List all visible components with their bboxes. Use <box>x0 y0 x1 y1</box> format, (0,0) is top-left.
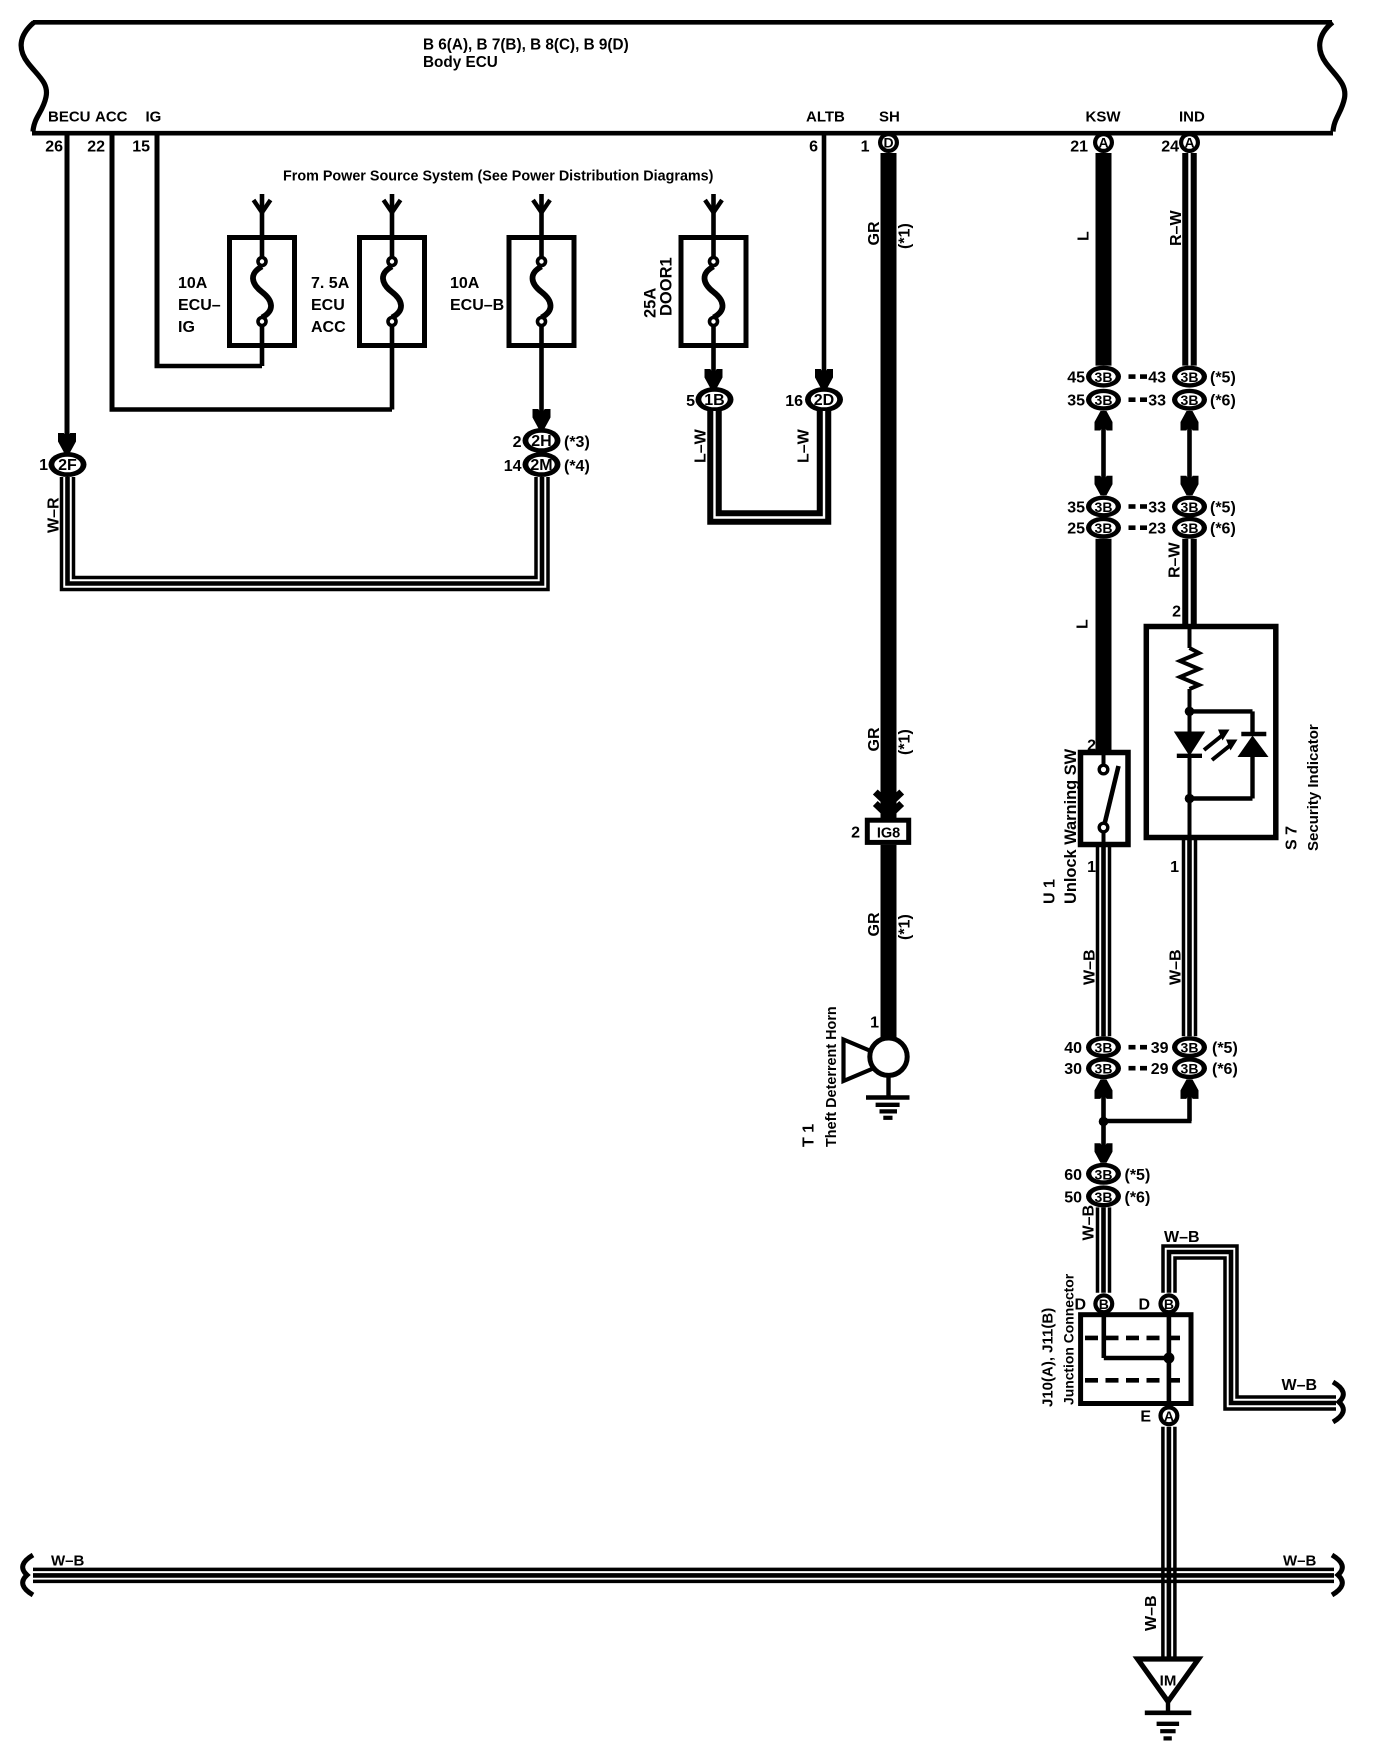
svg-text:50: 50 <box>1064 1189 1082 1206</box>
connector 1B <box>696 387 734 412</box>
svg-text:A: A <box>1184 135 1194 151</box>
fuse ECU-B element <box>539 240 544 258</box>
connector 3B (45) <box>1086 366 1121 388</box>
wire fuse DOOR1 to connector 1B <box>711 346 716 376</box>
svg-text:GR: GR <box>866 912 883 936</box>
ground IM triangle <box>1138 1659 1199 1702</box>
fuse DOOR1 box <box>681 238 746 346</box>
fuse ECU-ACC box <box>360 238 425 346</box>
wire R-W from 3B to security indicator <box>1182 539 1197 624</box>
connector 2H <box>523 428 561 453</box>
svg-text:ECU–B: ECU–B <box>450 297 504 314</box>
connector 2D <box>805 387 843 412</box>
svg-text:14: 14 <box>504 458 522 475</box>
svg-text:W–B: W–B <box>1168 949 1185 985</box>
svg-text:L–W: L–W <box>693 428 710 463</box>
junction connector IG8 <box>867 820 908 842</box>
connector 3B (39) <box>1172 1036 1207 1058</box>
svg-text:2: 2 <box>513 434 522 451</box>
svg-text:3B: 3B <box>1095 499 1113 515</box>
S7 internal wire bottom <box>1188 755 1192 837</box>
svg-text:W–B: W–B <box>1081 1205 1098 1241</box>
svg-text:T 1: T 1 <box>801 1124 818 1147</box>
connector 3B (60) <box>1086 1163 1121 1185</box>
svg-text:1B: 1B <box>704 392 724 409</box>
svg-text:DOOR1: DOOR1 <box>658 257 676 316</box>
dashes between 3B 40-39 <box>1129 1045 1136 1050</box>
wire L from 3B to unlock warning switch <box>1096 539 1112 753</box>
svg-text:2F: 2F <box>58 457 77 474</box>
svg-text:(*1): (*1) <box>897 223 914 249</box>
connector 3B (40) <box>1086 1036 1121 1058</box>
connector 3B (29) <box>1172 1057 1207 1079</box>
svg-text:R–W: R–W <box>1167 542 1184 578</box>
wire W-B from U1 to 3B <box>1096 845 1100 1036</box>
connector circle A at KSW <box>1093 132 1114 153</box>
svg-text:B: B <box>1099 1296 1109 1312</box>
connector 3B (30) <box>1086 1057 1121 1079</box>
svg-text:2M: 2M <box>530 457 552 474</box>
svg-text:W–B: W–B <box>51 1553 85 1570</box>
link arrow below 3B 30 <box>1095 1079 1113 1099</box>
svg-text:Unlock Warning SW: Unlock Warning SW <box>1062 748 1080 904</box>
svg-text:(*3): (*3) <box>564 434 590 451</box>
connector 3B (43) <box>1172 366 1207 388</box>
theft deterrent horn T1 <box>844 1040 874 1082</box>
connector 3B (23) <box>1172 517 1207 539</box>
svg-text:Body ECU: Body ECU <box>423 54 498 71</box>
resistor inside S7 <box>1180 648 1199 689</box>
svg-text:ACC: ACC <box>311 319 346 336</box>
svg-text:(*6): (*6) <box>1210 521 1236 538</box>
junction connector circle B left <box>1093 1293 1114 1314</box>
connector circle D at SH <box>878 132 899 153</box>
svg-text:3B: 3B <box>1095 1166 1113 1182</box>
svg-text:2H: 2H <box>531 433 551 450</box>
svg-text:15: 15 <box>132 139 150 156</box>
svg-text:KSW: KSW <box>1086 109 1122 126</box>
junction connector circle A <box>1158 1405 1179 1426</box>
LED in S7 <box>1174 732 1205 757</box>
ground IM symbol bars <box>1166 1702 1170 1712</box>
connector 3B (35 lower) <box>1086 496 1121 518</box>
svg-text:IG: IG <box>146 109 162 126</box>
svg-text:3B: 3B <box>1095 392 1113 408</box>
svg-text:IG: IG <box>178 319 195 336</box>
security indicator S7 box <box>1146 627 1276 838</box>
svg-text:Theft Deterrent Horn: Theft Deterrent Horn <box>824 1006 840 1147</box>
svg-text:43: 43 <box>1148 370 1166 387</box>
svg-text:35: 35 <box>1067 500 1085 517</box>
loop wire W-B from junction connector B <box>1163 1246 1336 1397</box>
svg-text:3B: 3B <box>1181 1061 1199 1077</box>
svg-text:35: 35 <box>1067 393 1085 410</box>
power feed arrow above fuse ECU-IG <box>260 194 265 236</box>
svg-text:BECU: BECU <box>48 109 91 126</box>
svg-text:3B: 3B <box>1181 392 1199 408</box>
svg-text:2: 2 <box>851 825 860 842</box>
svg-text:6: 6 <box>809 139 818 156</box>
svg-text:45: 45 <box>1067 370 1085 387</box>
svg-text:10A: 10A <box>450 275 480 292</box>
link arrow below 3B 29 <box>1181 1079 1199 1099</box>
svg-text:30: 30 <box>1064 1061 1082 1078</box>
svg-text:GR: GR <box>866 727 883 751</box>
svg-text:IND: IND <box>1179 109 1205 126</box>
wire fuse ECU-B to connector 2H <box>539 346 544 416</box>
svg-text:3B: 3B <box>1181 499 1199 515</box>
wire R-W from IND to 3B <box>1182 153 1197 366</box>
dashes between 3B 35-33 <box>1129 397 1136 402</box>
svg-text:L: L <box>1076 231 1093 241</box>
svg-text:3B: 3B <box>1095 1189 1113 1205</box>
svg-text:D: D <box>1138 1297 1150 1314</box>
branch wire to diode <box>1190 709 1253 713</box>
Body ECU connector band top edge <box>33 20 1332 25</box>
svg-text:23: 23 <box>1148 521 1166 538</box>
connector 2M <box>523 452 561 477</box>
wire W-B from junction connector A to ground <box>1161 1427 1165 1659</box>
junction connector internal dashed line lower <box>1085 1378 1187 1383</box>
svg-text:25: 25 <box>1067 521 1085 538</box>
Body ECU band bottom edge <box>32 131 1333 136</box>
link arrows IND between 3B pairs <box>1181 411 1199 431</box>
dashes between 3B 30-29 <box>1129 1066 1136 1071</box>
wire from junction to 3B 60 <box>1101 1121 1106 1152</box>
svg-text:3B: 3B <box>1181 1040 1199 1056</box>
horn ground <box>886 1076 890 1098</box>
svg-text:3B: 3B <box>1181 369 1199 385</box>
svg-text:1: 1 <box>39 457 48 474</box>
ground bus W-B left brace <box>23 1555 33 1595</box>
svg-text:10A: 10A <box>178 275 208 292</box>
svg-text:(*6): (*6) <box>1125 1189 1151 1206</box>
svg-text:40: 40 <box>1064 1040 1082 1057</box>
Body ECU band right wave edge <box>1320 22 1345 131</box>
fuse ECU-IG element <box>260 240 265 258</box>
dashes between 3B 25-23 <box>1129 525 1136 530</box>
svg-text:33: 33 <box>1148 500 1166 517</box>
svg-text:1: 1 <box>1087 859 1096 876</box>
fuse ECU-ACC element <box>390 240 395 258</box>
fuse DOOR1 element <box>711 240 716 258</box>
wire joining IND branch to KSW branch <box>1187 1092 1192 1122</box>
fuse ECU-IG box <box>230 238 295 346</box>
svg-text:(*1): (*1) <box>897 914 914 940</box>
unlock warning switch U1 box <box>1081 753 1129 845</box>
svg-text:W–B: W–B <box>1082 949 1099 985</box>
svg-text:SH: SH <box>879 109 900 126</box>
svg-text:A: A <box>1098 135 1108 151</box>
svg-text:2D: 2D <box>814 392 834 409</box>
svg-text:(*5): (*5) <box>1212 1040 1238 1057</box>
connector 3B (35) <box>1086 389 1121 411</box>
svg-text:(*1): (*1) <box>897 729 914 755</box>
svg-text:ALTB: ALTB <box>806 109 845 126</box>
svg-text:3B: 3B <box>1095 520 1113 536</box>
junction connector circle B right <box>1158 1293 1179 1314</box>
svg-text:R–W: R–W <box>1168 210 1185 246</box>
svg-text:7. 5A: 7. 5A <box>311 275 350 292</box>
wire GR from IG8 to horn <box>881 845 897 1038</box>
power feed arrow above fuse ECU-ACC <box>390 194 395 236</box>
svg-text:(*5): (*5) <box>1210 370 1236 387</box>
svg-text:E: E <box>1140 1409 1151 1426</box>
svg-text:B 6(A), B 7(B), B 8(C), B 9(D): B 6(A), B 7(B), B 8(C), B 9(D) <box>423 37 629 54</box>
connector 3B (33 lower) <box>1172 496 1207 518</box>
svg-text:(*6): (*6) <box>1212 1061 1238 1078</box>
svg-text:1: 1 <box>861 139 870 156</box>
wire L-W from 1B to 2D <box>715 411 825 518</box>
Body ECU band left wave edge <box>21 22 46 131</box>
svg-text:2: 2 <box>1172 604 1181 621</box>
svg-text:Security Indicator: Security Indicator <box>1305 724 1322 851</box>
junction connector internal node dot <box>1163 1353 1174 1364</box>
svg-text:60: 60 <box>1064 1167 1082 1184</box>
connector circle A at IND <box>1179 132 1200 153</box>
junction connector internal dashed line upper <box>1085 1336 1187 1341</box>
diode in S7 <box>1241 732 1266 736</box>
connector 2F <box>49 452 87 477</box>
svg-text:From Power Source System (See: From Power Source System (See Power Dist… <box>283 169 714 185</box>
svg-text:3B: 3B <box>1095 1061 1113 1077</box>
node branch dot lower in S7 <box>1185 794 1195 804</box>
svg-text:W–B: W–B <box>1282 1377 1318 1394</box>
wire ALTB pin 6 to connector 2D <box>822 133 827 375</box>
svg-text:IG8: IG8 <box>877 825 900 841</box>
svg-text:D: D <box>883 135 893 151</box>
node branch dot upper in S7 <box>1185 707 1195 717</box>
svg-text:24: 24 <box>1161 139 1179 156</box>
svg-text:29: 29 <box>1151 1061 1169 1078</box>
svg-text:B: B <box>1164 1296 1174 1312</box>
svg-text:26: 26 <box>45 139 63 156</box>
wire ACC pin 22 to fuse ECU-ACC <box>110 133 115 409</box>
ground bus W-B right brace <box>1332 1555 1342 1595</box>
svg-text:39: 39 <box>1151 1040 1169 1057</box>
svg-text:W–R: W–R <box>46 497 63 533</box>
svg-text:(*6): (*6) <box>1210 393 1236 410</box>
svg-text:21: 21 <box>1070 139 1088 156</box>
svg-text:22: 22 <box>87 139 105 156</box>
svg-text:(*5): (*5) <box>1210 500 1236 517</box>
power feed arrow above fuse ECU-B <box>539 194 544 236</box>
dashes between 3B 45-43 <box>1129 374 1136 379</box>
link arrows KSW between 3B pairs <box>1095 411 1113 431</box>
junction connector J10(A) J11(B) box <box>1081 1315 1191 1404</box>
svg-text:33: 33 <box>1148 393 1166 410</box>
svg-text:ECU–: ECU– <box>178 297 221 314</box>
svg-text:1: 1 <box>870 1015 879 1032</box>
svg-text:5: 5 <box>686 393 695 410</box>
ground bus W-B wire <box>33 1568 1334 1572</box>
junction connector internal bus wires <box>1102 1317 1107 1358</box>
wire GR from SH to junction IG8 <box>881 153 897 818</box>
svg-text:16: 16 <box>785 393 803 410</box>
svg-text:GR: GR <box>866 221 883 245</box>
svg-text:3B: 3B <box>1181 520 1199 536</box>
svg-text:IM: IM <box>1160 1673 1177 1690</box>
connector 3B (33) <box>1172 389 1207 411</box>
continuation brace of loop wire <box>1333 1382 1343 1422</box>
junction node dot <box>1099 1117 1109 1127</box>
svg-text:S 7: S 7 <box>1284 826 1301 850</box>
svg-text:J10(A), J11(B): J10(A), J11(B) <box>1040 1308 1057 1407</box>
LED emission arrows <box>1204 736 1222 751</box>
wire BECU pin 26 to connector 2F <box>65 133 70 439</box>
S7 internal wire to LED <box>1188 689 1192 732</box>
svg-text:L–W: L–W <box>796 428 813 463</box>
svg-text:ECU: ECU <box>311 297 345 314</box>
svg-text:W–B: W–B <box>1143 1595 1160 1631</box>
wire W-B from S7 to 3B <box>1182 840 1186 1037</box>
svg-text:(*4): (*4) <box>564 458 590 475</box>
connector 3B (50) <box>1086 1185 1121 1207</box>
power feed arrow above fuse DOOR1 <box>711 194 716 236</box>
svg-text:W–B: W–B <box>1164 1229 1200 1246</box>
fuse ECU-B box <box>509 238 574 346</box>
wire W-R from 2F to 2M <box>62 477 549 590</box>
svg-text:(*5): (*5) <box>1125 1167 1151 1184</box>
svg-text:U 1: U 1 <box>1042 879 1059 904</box>
svg-text:A: A <box>1164 1408 1174 1424</box>
S7 internal wire top <box>1188 629 1192 648</box>
wire L from KSW to 3B <box>1096 153 1112 366</box>
svg-text:Junction Connector: Junction Connector <box>1061 1273 1077 1405</box>
wire W-B from 3B 50 to junction connector <box>1096 1207 1100 1292</box>
connector 3B (25) <box>1086 517 1121 539</box>
dashes between 3B 35-33 lower <box>1129 504 1136 509</box>
svg-text:L: L <box>1075 619 1092 629</box>
wire IG pin 15 to fuse ECU-IG <box>155 133 160 366</box>
svg-text:1: 1 <box>1170 859 1179 876</box>
svg-text:3B: 3B <box>1095 369 1113 385</box>
svg-text:W–B: W–B <box>1283 1553 1317 1570</box>
unlock warning switch U1 contacts <box>1102 755 1106 764</box>
svg-text:ACC: ACC <box>95 109 128 126</box>
svg-text:3B: 3B <box>1095 1040 1113 1056</box>
